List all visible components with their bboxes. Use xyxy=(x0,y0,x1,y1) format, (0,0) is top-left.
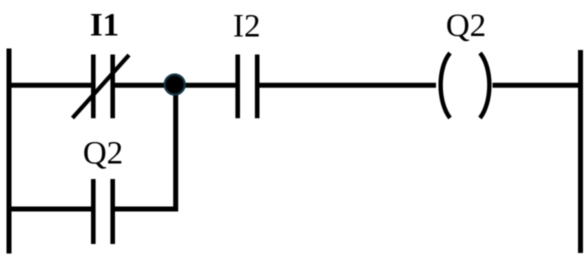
svg-text:I1: I1 xyxy=(90,8,119,44)
svg-text:I2: I2 xyxy=(233,9,261,45)
svg-text:Q2: Q2 xyxy=(446,8,486,44)
svg-text:Q2: Q2 xyxy=(83,136,123,172)
